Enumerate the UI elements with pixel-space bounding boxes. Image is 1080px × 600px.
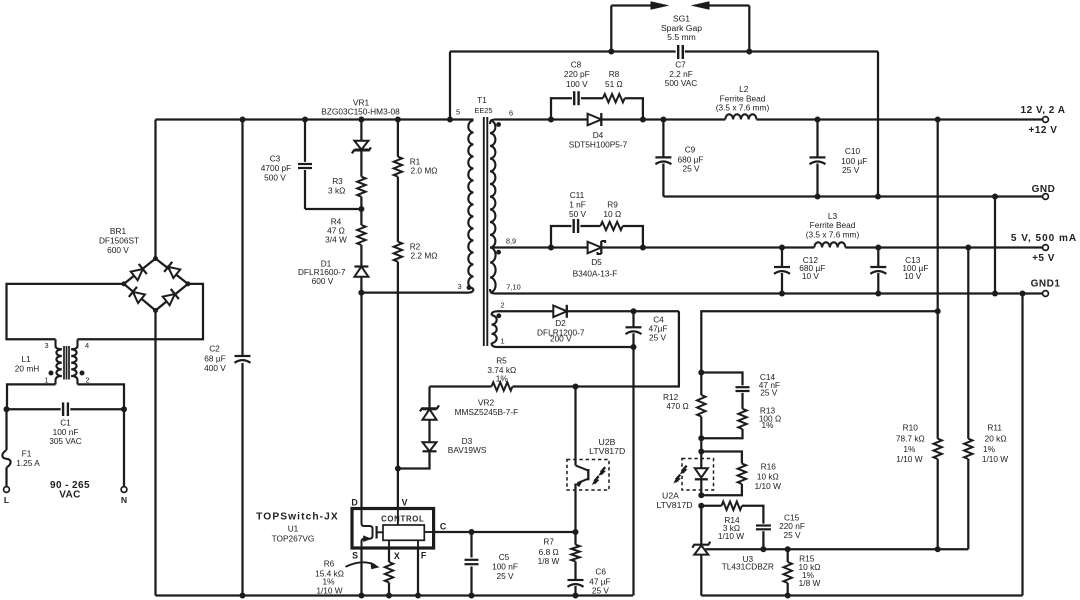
svg-text:C3: C3 xyxy=(270,154,281,164)
junction dot R12 feed xyxy=(935,308,941,314)
svg-text:R8: R8 xyxy=(609,69,620,79)
svg-text:1%: 1% xyxy=(496,373,509,383)
svg-text:600 V: 600 V xyxy=(312,276,334,286)
junction dot C9 top xyxy=(660,117,666,123)
diode D3 xyxy=(398,420,487,469)
wire L1 pin1 to C1 xyxy=(7,384,56,409)
svg-text:BR1: BR1 xyxy=(110,226,127,236)
svg-text:C8: C8 xyxy=(571,60,582,70)
svg-text:R7: R7 xyxy=(543,537,554,547)
wire N vertical xyxy=(123,409,125,486)
svg-text:C9: C9 xyxy=(685,145,696,155)
wire R12 feed xyxy=(701,311,937,372)
svg-text:4: 4 xyxy=(85,341,89,350)
wire GND1 rail xyxy=(490,289,495,294)
svg-text:R10: R10 xyxy=(903,423,919,433)
junction dots C12 xyxy=(779,245,785,297)
junction dot R1 top xyxy=(395,117,401,123)
junction dot Y-cap GND xyxy=(875,194,881,200)
svg-text:N: N xyxy=(121,495,127,505)
resistor R3 xyxy=(328,176,366,209)
svg-text:1 nF: 1 nF xyxy=(569,199,586,209)
svg-text:51 Ω: 51 Ω xyxy=(605,79,623,89)
shunt regulator U3 TL431 xyxy=(692,506,774,596)
junction dots BR1 xyxy=(121,256,190,313)
junction dots C1 xyxy=(4,406,128,412)
svg-text:(3.5 x 7.6 mm): (3.5 x 7.6 mm) xyxy=(716,103,770,113)
svg-text:D: D xyxy=(351,497,357,507)
terminal +12V xyxy=(1021,105,1066,136)
svg-text:305 VAC: 305 VAC xyxy=(49,436,82,446)
capacitor C6 xyxy=(568,566,611,595)
junction dots spark gap xyxy=(608,49,752,55)
svg-text:T1: T1 xyxy=(477,95,487,105)
IC U1 TOP267VG xyxy=(256,497,447,561)
svg-text:C6: C6 xyxy=(595,566,606,576)
svg-text:DF1506ST: DF1506ST xyxy=(99,236,139,246)
junction dots C14 branch xyxy=(698,370,704,442)
junction dots C13 xyxy=(875,245,881,297)
svg-text:R6: R6 xyxy=(324,558,335,568)
svg-text:25 V: 25 V xyxy=(682,163,700,173)
junction dot V pin node xyxy=(395,466,401,472)
svg-text:GND1: GND1 xyxy=(1031,279,1061,290)
resistor R4 xyxy=(325,209,365,266)
svg-text:R9: R9 xyxy=(607,200,618,210)
svg-text:1%: 1% xyxy=(983,444,996,454)
svg-text:1%: 1% xyxy=(762,420,775,430)
svg-text:25 V: 25 V xyxy=(760,387,778,397)
TVS VR1 xyxy=(321,97,400,176)
wire bottom primary rail xyxy=(156,594,634,596)
svg-text:U1: U1 xyxy=(288,524,299,534)
junction dots R15 xyxy=(785,546,791,598)
svg-text:LTV817D: LTV817D xyxy=(589,446,625,456)
svg-text:25 V: 25 V xyxy=(842,165,860,175)
svg-text:3 kΩ: 3 kΩ xyxy=(328,186,345,196)
junction dot GND1 right xyxy=(1020,291,1026,297)
capacitor C13 xyxy=(870,248,928,294)
svg-text:R11: R11 xyxy=(987,423,1002,433)
resistor R10 xyxy=(896,423,942,550)
svg-text:200 V: 200 V xyxy=(550,334,572,344)
svg-text:U2A: U2A xyxy=(662,491,679,501)
svg-text:GND: GND xyxy=(1032,184,1056,195)
diode D1 xyxy=(298,259,368,293)
wire 5V rail xyxy=(490,246,1043,248)
junction dot C pin / U2B emitter xyxy=(573,529,579,535)
svg-text:2: 2 xyxy=(85,376,89,385)
svg-text:VAC: VAC xyxy=(59,490,81,501)
svg-text:10 Ω: 10 Ω xyxy=(603,209,621,219)
wire BR1 minus vertical xyxy=(154,311,156,596)
terminal N xyxy=(121,487,127,505)
svg-text:500 V: 500 V xyxy=(264,172,286,182)
capacitor C9 xyxy=(655,120,703,197)
svg-text:V: V xyxy=(402,497,408,507)
wire DC+ rail xyxy=(156,118,474,120)
junction dot VR1 top xyxy=(358,117,364,123)
svg-text:10 kΩ: 10 kΩ xyxy=(757,472,779,482)
wire GND rail xyxy=(663,195,1042,197)
svg-text:7,10: 7,10 xyxy=(506,283,520,292)
svg-text:R3: R3 xyxy=(332,176,343,186)
junction dot Y-rail left xyxy=(447,117,453,123)
optocoupler U2B xyxy=(567,387,625,533)
junction dots C10 xyxy=(815,117,821,200)
svg-text:25 V: 25 V xyxy=(783,530,801,540)
capacitor C12 xyxy=(774,248,825,294)
svg-text:MMSZ5245B-7-F: MMSZ5245B-7-F xyxy=(455,407,519,417)
svg-text:20 kΩ: 20 kΩ xyxy=(985,434,1007,444)
svg-text:3: 3 xyxy=(457,282,461,291)
transformer T1 secondary winding pin8-9 pin7-10 xyxy=(490,237,521,293)
svg-text:TL431CDBZR: TL431CDBZR xyxy=(722,562,774,572)
svg-text:X: X xyxy=(394,551,400,561)
svg-text:1%: 1% xyxy=(903,444,916,454)
svg-text:5.5 mm: 5.5 mm xyxy=(667,32,696,42)
svg-text:S: S xyxy=(352,551,358,561)
ferrite bead L3 xyxy=(806,211,860,248)
wire GND to GND1 link xyxy=(994,197,996,294)
svg-text:68 µF: 68 µF xyxy=(204,354,225,364)
zener VR2 xyxy=(420,387,518,420)
fuse F1 xyxy=(2,409,40,486)
transformer T1 secondary winding pin6 pin8-9 xyxy=(490,109,513,248)
svg-text:1/8 W: 1/8 W xyxy=(538,556,560,566)
svg-text:L1: L1 xyxy=(21,354,31,364)
wire bias positive to R5 xyxy=(576,311,679,386)
svg-text:EE25: EE25 xyxy=(474,106,492,115)
resistor R11 xyxy=(964,248,1008,550)
terminal GND xyxy=(1032,184,1056,199)
svg-text:L2: L2 xyxy=(739,84,749,94)
junction dot R5 right xyxy=(573,384,579,390)
svg-text:10 V: 10 V xyxy=(802,271,820,281)
svg-text:2.0 MΩ: 2.0 MΩ xyxy=(411,165,438,175)
svg-text:TOP267VG: TOP267VG xyxy=(272,534,315,544)
wire drain node xyxy=(361,289,473,509)
svg-text:1.25 A: 1.25 A xyxy=(16,458,40,468)
svg-text:(3.5 x 7.6 mm): (3.5 x 7.6 mm) xyxy=(806,229,860,239)
wire C pin xyxy=(434,531,576,533)
capacitor C14 resistor R13 branch xyxy=(701,372,781,438)
junction dots C4 xyxy=(631,308,637,350)
junction dots R16 branch xyxy=(698,449,704,499)
svg-text:50 V: 50 V xyxy=(569,209,587,219)
wire BR1 plus vertical xyxy=(154,120,156,259)
choke L1 xyxy=(15,339,90,384)
junction dots snubber1 xyxy=(548,117,646,123)
junction dot ref R10 xyxy=(935,546,941,552)
capacitor C5 xyxy=(465,532,518,596)
svg-text:1/10 W: 1/10 W xyxy=(316,585,342,595)
diode D2 xyxy=(497,305,679,344)
svg-text:C: C xyxy=(440,522,447,532)
svg-text:D5: D5 xyxy=(591,257,602,267)
junction dots U1 pins xyxy=(359,593,422,599)
svg-text:+5 V: +5 V xyxy=(1032,253,1055,264)
svg-text:78.7 kΩ: 78.7 kΩ xyxy=(896,434,925,444)
wire Y-cap rail xyxy=(450,52,878,197)
resistor R7 xyxy=(538,532,580,580)
svg-text:BAV19WS: BAV19WS xyxy=(448,445,487,455)
junction dot drain xyxy=(358,290,364,296)
junction dots snubber2 xyxy=(548,245,646,251)
svg-text:20 mH: 20 mH xyxy=(15,364,39,374)
svg-text:600 V: 600 V xyxy=(107,245,129,255)
wire bottom secondary rail xyxy=(701,294,1022,596)
svg-text:1/10 W: 1/10 W xyxy=(982,454,1008,464)
svg-text:BZG03C150-HM3-08: BZG03C150-HM3-08 xyxy=(321,107,400,117)
capacitor C2 xyxy=(204,120,250,596)
junction dot R11 top xyxy=(965,245,971,251)
junction dot C3 top xyxy=(302,117,308,123)
svg-text:3: 3 xyxy=(44,341,48,350)
junction dots GND link xyxy=(992,194,998,297)
wire reference line xyxy=(763,548,968,550)
svg-text:12 V, 2 A: 12 V, 2 A xyxy=(1021,105,1066,116)
spark gap SG1 xyxy=(611,1,749,51)
wire F pin xyxy=(417,548,419,596)
capacitor C1 xyxy=(7,402,125,446)
svg-text:470 Ω: 470 Ω xyxy=(666,401,688,411)
diode D5 xyxy=(573,241,618,279)
resistor R15 xyxy=(784,549,821,595)
svg-text:1: 1 xyxy=(500,337,504,346)
svg-text:3/4 W: 3/4 W xyxy=(325,235,347,245)
resistor R16 branch xyxy=(701,452,781,496)
svg-text:TOPSwitch-JX: TOPSwitch-JX xyxy=(256,512,339,523)
terminal L xyxy=(4,487,10,505)
svg-text:100 V: 100 V xyxy=(566,79,588,89)
wire BR1 left to L1 pin3 xyxy=(7,284,124,339)
svg-text:1/10 W: 1/10 W xyxy=(755,481,781,491)
ferrite bead L2 xyxy=(716,84,770,120)
bridge rectifier BR1 xyxy=(99,226,188,311)
svg-text:F: F xyxy=(421,551,427,561)
svg-text:1/10 W: 1/10 W xyxy=(718,531,744,541)
svg-text:500 VAC: 500 VAC xyxy=(665,78,698,88)
optocoupler U2A xyxy=(656,438,713,510)
svg-text:CONTROL: CONTROL xyxy=(381,514,424,523)
svg-text:2.2 MΩ: 2.2 MΩ xyxy=(411,250,438,260)
junction dot R3 bottom xyxy=(358,206,364,212)
resistor R2 xyxy=(394,177,438,509)
svg-text:C2: C2 xyxy=(209,344,220,354)
capacitor C10 xyxy=(810,120,868,197)
svg-text:L: L xyxy=(4,495,9,505)
resistor R5 xyxy=(430,356,576,391)
junction dots C5 xyxy=(469,529,475,599)
resistor R6 xyxy=(315,548,393,596)
wire 12V sense R10 vertical xyxy=(937,120,939,439)
svg-text:25 V: 25 V xyxy=(496,571,514,581)
capacitor C4 xyxy=(626,311,668,347)
terminal +5V xyxy=(1011,233,1077,264)
svg-text:25 V: 25 V xyxy=(649,333,667,343)
transformer T1 bias winding pin2 pin1 xyxy=(492,301,505,348)
svg-text:8,9: 8,9 xyxy=(506,237,516,246)
label 90-265 VAC xyxy=(50,480,90,501)
svg-text:1/8 W: 1/8 W xyxy=(799,578,821,588)
svg-text:1: 1 xyxy=(44,376,48,385)
resistor R14 capacitor C15 xyxy=(701,502,805,550)
svg-text:VR2: VR2 xyxy=(478,398,495,408)
junction dot C6 bottom xyxy=(573,593,579,599)
svg-text:25 V: 25 V xyxy=(592,585,610,595)
svg-text:+12 V: +12 V xyxy=(1029,125,1058,136)
svg-text:10 V: 10 V xyxy=(904,271,922,281)
svg-text:F1: F1 xyxy=(22,449,32,459)
svg-text:C5: C5 xyxy=(499,552,510,562)
svg-text:220 pF: 220 pF xyxy=(564,69,590,79)
transformer T1 primary winding pin5 pin3 xyxy=(456,108,474,292)
transformer T1 core xyxy=(474,95,492,346)
junction dots R14 node xyxy=(698,503,766,553)
terminal GND1 xyxy=(1031,279,1061,297)
wire bias return xyxy=(497,347,634,596)
snubber C8 R8 xyxy=(551,60,643,120)
junction dot R10 top xyxy=(935,117,941,123)
wire BR1 right to L1 pin4 xyxy=(78,284,204,339)
snubber C11 R9 xyxy=(551,190,643,248)
svg-text:400 V: 400 V xyxy=(204,363,226,373)
svg-text:R16: R16 xyxy=(761,462,777,472)
svg-text:2: 2 xyxy=(500,301,504,310)
junction dots C2 xyxy=(240,117,246,599)
svg-text:SG1: SG1 xyxy=(673,13,690,23)
diode D4 xyxy=(569,113,628,149)
capacitor C7 xyxy=(665,45,698,88)
wire S pin xyxy=(360,548,362,596)
svg-text:6: 6 xyxy=(509,109,513,118)
wire 12V rail xyxy=(490,120,1043,125)
wire L1 pin2 to N xyxy=(78,384,125,409)
svg-text:1/10 W: 1/10 W xyxy=(896,454,922,464)
svg-text:100 nF: 100 nF xyxy=(492,562,518,572)
svg-text:SDT5H100P5-7: SDT5H100P5-7 xyxy=(569,139,628,149)
capacitor C3 xyxy=(261,120,362,210)
svg-text:LTV817D: LTV817D xyxy=(656,500,692,510)
resistor R12 xyxy=(663,373,706,439)
svg-text:C10: C10 xyxy=(845,146,861,156)
svg-text:B340A-13-F: B340A-13-F xyxy=(573,269,618,279)
resistor R1 xyxy=(394,120,438,177)
svg-text:5: 5 xyxy=(456,108,460,117)
svg-text:5 V, 500 mA: 5 V, 500 mA xyxy=(1011,233,1077,244)
